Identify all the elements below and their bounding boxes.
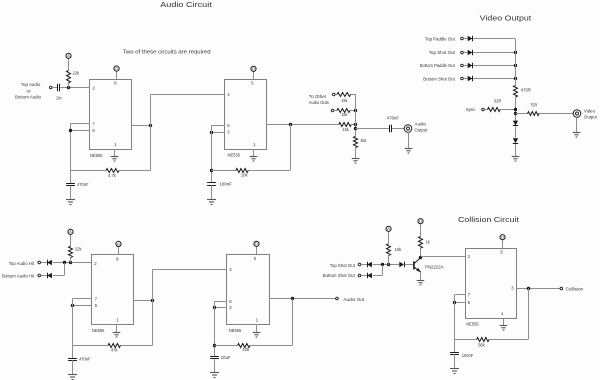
wire [454, 295, 456, 352]
svg-text:D: D [501, 236, 504, 240]
svg-text:Video Output: Video Output [480, 14, 533, 23]
ground video connector [573, 133, 581, 138]
wire [53, 263, 65, 276]
terminal Top Audio Hit [38, 261, 41, 264]
capacitor 470nF U1 [66, 182, 89, 187]
svg-text:Top Shot Out: Top Shot Out [429, 50, 456, 55]
resistor 75R [528, 103, 540, 116]
wire [454, 354, 456, 368]
wire [270, 298, 336, 300]
wire [72, 298, 91, 300]
wire [473, 78, 516, 80]
svg-text:Audio: Audio [415, 122, 427, 127]
svg-text:D: D [255, 242, 258, 246]
supply D 1k [418, 219, 423, 224]
svg-text:470nF: 470nF [387, 116, 399, 121]
resistor 22k hit [69, 246, 83, 257]
supply D U3 [116, 241, 121, 246]
node junction [149, 124, 152, 127]
terminal audio out 1 [333, 93, 336, 96]
diode clamp D2 [513, 138, 518, 143]
svg-text:10k: 10k [241, 172, 248, 177]
wire [253, 71, 255, 79]
diode Top Shot Out [367, 262, 372, 267]
wire [473, 65, 516, 67]
ground U2 [250, 157, 258, 162]
wire [388, 231, 390, 265]
terminal Sync [482, 108, 485, 111]
node junction [63, 261, 66, 264]
svg-text:10uF: 10uF [221, 355, 231, 360]
wire [214, 345, 292, 347]
node junction [210, 169, 213, 172]
wire [463, 52, 467, 54]
svg-text:15k: 15k [343, 127, 350, 132]
svg-text:22k: 22k [73, 71, 80, 76]
node junction [514, 112, 517, 115]
wire [463, 78, 467, 80]
wire [152, 270, 154, 346]
wire [60, 87, 89, 89]
wire [52, 87, 57, 89]
node Bottom Paddle Out label [420, 63, 456, 68]
wire [576, 117, 578, 132]
wire [70, 234, 72, 263]
wire [211, 132, 224, 134]
resistor 10k U4 [238, 344, 251, 352]
wire [211, 170, 290, 172]
svg-text:100nF: 100nF [220, 182, 233, 187]
wire [361, 275, 367, 277]
wire [473, 38, 516, 40]
svg-text:47k: 47k [111, 348, 118, 353]
svg-text:Top Audio: Top Audio [21, 82, 41, 87]
wire [214, 307, 226, 309]
resistor 4.7k [106, 169, 119, 178]
diode Top Shot Out [468, 50, 473, 55]
connector Video Output [573, 108, 597, 119]
wire [455, 302, 466, 304]
resistor 22k [67, 71, 80, 83]
wire [256, 324, 258, 332]
wire [361, 264, 367, 266]
svg-text:PN2222A: PN2222A [425, 264, 444, 269]
wire [41, 275, 48, 277]
node junction [213, 306, 216, 309]
node junction [387, 263, 390, 266]
supply A collision [386, 226, 391, 231]
wire bus [355, 94, 357, 136]
svg-text:4.7k: 4.7k [108, 173, 117, 178]
wire [53, 262, 92, 264]
ground U4 [253, 333, 261, 338]
ground 1k5 [352, 159, 360, 164]
capacitor 470nF U3 [68, 357, 91, 362]
node junction [354, 127, 357, 130]
wire [70, 124, 72, 184]
svg-text:22k: 22k [75, 246, 82, 251]
node junction [69, 129, 72, 132]
node Audio Out label [343, 297, 364, 302]
resistor 56k [477, 338, 489, 348]
node junction [514, 108, 517, 111]
svg-text:D: D [115, 67, 118, 71]
svg-text:470R: 470R [521, 87, 532, 92]
capacitor 100nF U2 [207, 182, 232, 187]
wire [41, 262, 48, 264]
transistor Q1 PN2222A [414, 257, 444, 272]
diode Bottom Audio Hit [47, 273, 52, 278]
wire [214, 301, 226, 303]
svg-text:15k: 15k [341, 98, 348, 103]
svg-text:Video: Video [584, 108, 595, 113]
svg-text:NE555: NE555 [90, 153, 103, 158]
resistor 15k c [339, 123, 352, 133]
svg-text:Audio Circuit: Audio Circuit [160, 0, 213, 9]
ground C 470nF hit [68, 375, 77, 380]
node junction [289, 123, 292, 126]
terminal Top/Bottom Audio [50, 86, 53, 89]
resistor 82R [488, 99, 502, 112]
node junction [291, 297, 294, 300]
svg-text:Bottom Shot Out: Bottom Shot Out [423, 76, 455, 81]
svg-text:NE555: NE555 [228, 153, 241, 158]
svg-text:Audio Outs: Audio Outs [309, 100, 330, 105]
node Bottom Shot Out label [323, 273, 356, 278]
node Bottom Audio Hit label [2, 273, 35, 278]
wire [373, 265, 383, 276]
svg-text:Bottom Paddle Out: Bottom Paddle Out [420, 63, 456, 68]
wire [334, 110, 356, 112]
svg-text:75R: 75R [530, 103, 538, 108]
wire [473, 52, 516, 54]
node Bottom Shot Out label [423, 76, 455, 81]
wire [253, 149, 255, 157]
svg-text:NE555: NE555 [92, 328, 105, 333]
wire [355, 148, 357, 158]
title Audio Circuit [160, 0, 213, 9]
node junction [527, 287, 530, 290]
svg-text:15k: 15k [341, 112, 348, 117]
svg-text:100nF: 100nF [462, 353, 474, 358]
title Collision Circuit [458, 215, 520, 224]
terminal Top Shot Out [461, 51, 464, 54]
wire [516, 113, 574, 115]
diode Top Paddle Out [468, 36, 473, 41]
svg-text:10k: 10k [395, 247, 402, 252]
wire [356, 128, 405, 130]
svg-text:To Other: To Other [309, 94, 327, 99]
wire [72, 360, 74, 374]
node To Other Audio Outs label [309, 94, 330, 105]
node junction [151, 299, 154, 302]
wire [528, 288, 530, 339]
terminal Bottom Shot Out [461, 77, 464, 80]
wire [267, 124, 339, 126]
wire [70, 123, 89, 125]
wire [116, 71, 118, 79]
svg-text:10n: 10n [56, 95, 62, 100]
capacitor 100nF U5 [450, 353, 473, 359]
ground C 10uF [210, 373, 219, 378]
wire [484, 109, 515, 111]
resistor 15k b [337, 109, 350, 118]
terminal Top Shot Out [358, 263, 361, 266]
svg-text:Bottom Audio: Bottom Audio [15, 95, 41, 100]
resistor 1k [419, 237, 431, 249]
node junction [210, 131, 213, 134]
svg-text:Audio Out: Audio Out [343, 297, 364, 302]
wire [70, 130, 89, 132]
op-amp U5 NE555 [466, 249, 517, 327]
wire [70, 170, 151, 172]
node junction [453, 301, 456, 304]
diode Top Audio Hit [47, 260, 52, 265]
ground U3 [113, 333, 121, 338]
wire [211, 185, 213, 199]
wire [118, 247, 120, 255]
ground U5 [500, 326, 508, 331]
terminal Collision [560, 287, 563, 290]
op-amp U4 NE555 [227, 255, 270, 333]
terminal Top Paddle Out [461, 37, 464, 40]
terminal audio out 2 [331, 109, 334, 112]
diode base [399, 262, 404, 267]
svg-text:Top Audio Hit: Top Audio Hit [9, 261, 35, 266]
diode Bottom Paddle Out [468, 63, 473, 68]
supply D U4 [254, 241, 259, 246]
wire [214, 359, 216, 373]
wire [351, 124, 355, 126]
connector Audio Output [404, 122, 428, 133]
svg-text:Top Paddle Out: Top Paddle Out [425, 37, 455, 42]
svg-text:or: or [26, 88, 31, 93]
wire [420, 272, 422, 280]
svg-text:NE555: NE555 [229, 328, 242, 333]
title Video Output [480, 14, 533, 23]
op-amp U3 NE555 [92, 255, 134, 334]
svg-text:Bottom Shot Out: Bottom Shot Out [323, 273, 356, 278]
svg-text:1k: 1k [426, 240, 431, 245]
wire [515, 144, 517, 156]
note two circuits required [123, 49, 211, 55]
wire [153, 269, 227, 271]
wire [515, 126, 517, 138]
capacitor 10n [56, 84, 62, 101]
svg-text:Bottom Audio Hit: Bottom Audio Hit [2, 273, 35, 278]
wire [211, 125, 224, 127]
wire [463, 38, 467, 40]
wire [68, 59, 70, 88]
svg-text:Output: Output [584, 114, 597, 119]
node junction [381, 263, 384, 266]
ground video bus [512, 157, 520, 162]
terminal Bottom Shot Out [358, 274, 361, 277]
resistor 10k collision [387, 244, 402, 256]
node junction [213, 344, 216, 347]
wire [517, 288, 560, 290]
svg-text:NE555: NE555 [466, 321, 479, 326]
resistor 10k U2 [236, 169, 248, 178]
wire [408, 132, 410, 148]
wire [151, 94, 225, 96]
wire [421, 256, 466, 258]
supply D U1 [114, 66, 119, 71]
wire [502, 240, 504, 248]
ground audio connector [405, 149, 413, 154]
node junction [354, 109, 357, 112]
node Sync label [466, 107, 476, 112]
wire [72, 305, 91, 307]
wire [455, 339, 529, 341]
wire [290, 124, 292, 170]
svg-text:82R: 82R [494, 99, 502, 104]
supply A [66, 53, 71, 58]
ground C 470nF [66, 200, 75, 205]
node junction [67, 86, 70, 89]
ground C 100nF collision [450, 369, 459, 374]
svg-text:Collision: Collision [566, 286, 584, 291]
wire [114, 149, 116, 157]
wire [455, 294, 466, 296]
svg-text:1k5: 1k5 [360, 138, 367, 143]
node Top Shot Out label [429, 50, 456, 55]
svg-text:Two of these circuits are requ: Two of these circuits are required [123, 49, 211, 55]
resistor 47k [108, 344, 121, 353]
wire [116, 324, 118, 332]
wire [211, 126, 213, 183]
wire [132, 125, 151, 127]
ground Q1 emitter [417, 281, 425, 286]
node Top Audio / Bottom Audio input label [15, 82, 41, 99]
ground U1 [111, 157, 119, 162]
node junction [419, 256, 422, 259]
resistor 15k a [337, 93, 351, 103]
svg-text:Collision Circuit: Collision Circuit [458, 215, 520, 224]
svg-text:10k: 10k [243, 347, 250, 352]
node junction [514, 77, 517, 80]
wire [515, 97, 517, 121]
wire bus [515, 39, 517, 85]
node junction [514, 64, 517, 67]
diode clamp D1 [513, 121, 518, 126]
terminal Bottom Paddle Out [461, 64, 464, 67]
svg-text:D: D [252, 67, 255, 71]
terminal Bottom Audio Hit [38, 274, 41, 277]
wire [150, 94, 152, 170]
wire [72, 345, 152, 347]
svg-text:D: D [419, 220, 422, 224]
svg-text:D: D [117, 242, 120, 246]
node junction [514, 51, 517, 54]
wire [405, 264, 414, 266]
diode Bottom Shot Out [468, 76, 473, 81]
node Top Paddle Out label [425, 37, 455, 42]
supply D U2 [251, 66, 256, 71]
supply A hit [68, 229, 73, 234]
wire [134, 300, 153, 302]
wire [256, 246, 258, 254]
capacitor 10uF U4 [210, 355, 231, 360]
wire [335, 94, 355, 96]
wire [503, 318, 505, 326]
node Collision label [566, 286, 584, 291]
svg-text:Top Shot Out: Top Shot Out [330, 263, 356, 268]
diode Bottom Shot Out [367, 273, 372, 278]
ground C 100nF [207, 200, 216, 205]
op-amp U1 NE555 [90, 80, 132, 159]
svg-text:Sync: Sync [466, 107, 476, 112]
node junction [71, 304, 74, 307]
svg-text:Output: Output [415, 128, 428, 133]
svg-text:56k: 56k [478, 342, 485, 347]
wire [214, 302, 216, 357]
terminal Audio Out [336, 297, 339, 300]
resistor 1k5 [354, 136, 367, 147]
wire [72, 299, 74, 358]
svg-text:470nF: 470nF [79, 357, 91, 362]
wire [70, 186, 72, 200]
supply D U5 [500, 235, 505, 240]
node Top Shot Out label [330, 263, 356, 268]
wire [463, 65, 467, 67]
resistor 470R [514, 85, 532, 97]
wire [420, 224, 422, 257]
node Top Audio Hit label [9, 261, 35, 266]
op-amp U2 NE555 [225, 80, 267, 158]
svg-text:470nF: 470nF [77, 182, 89, 187]
node junction [69, 261, 72, 264]
wire [292, 299, 294, 345]
node junction [354, 123, 357, 126]
capacitor 470nF out [387, 116, 399, 133]
wire [373, 264, 400, 266]
